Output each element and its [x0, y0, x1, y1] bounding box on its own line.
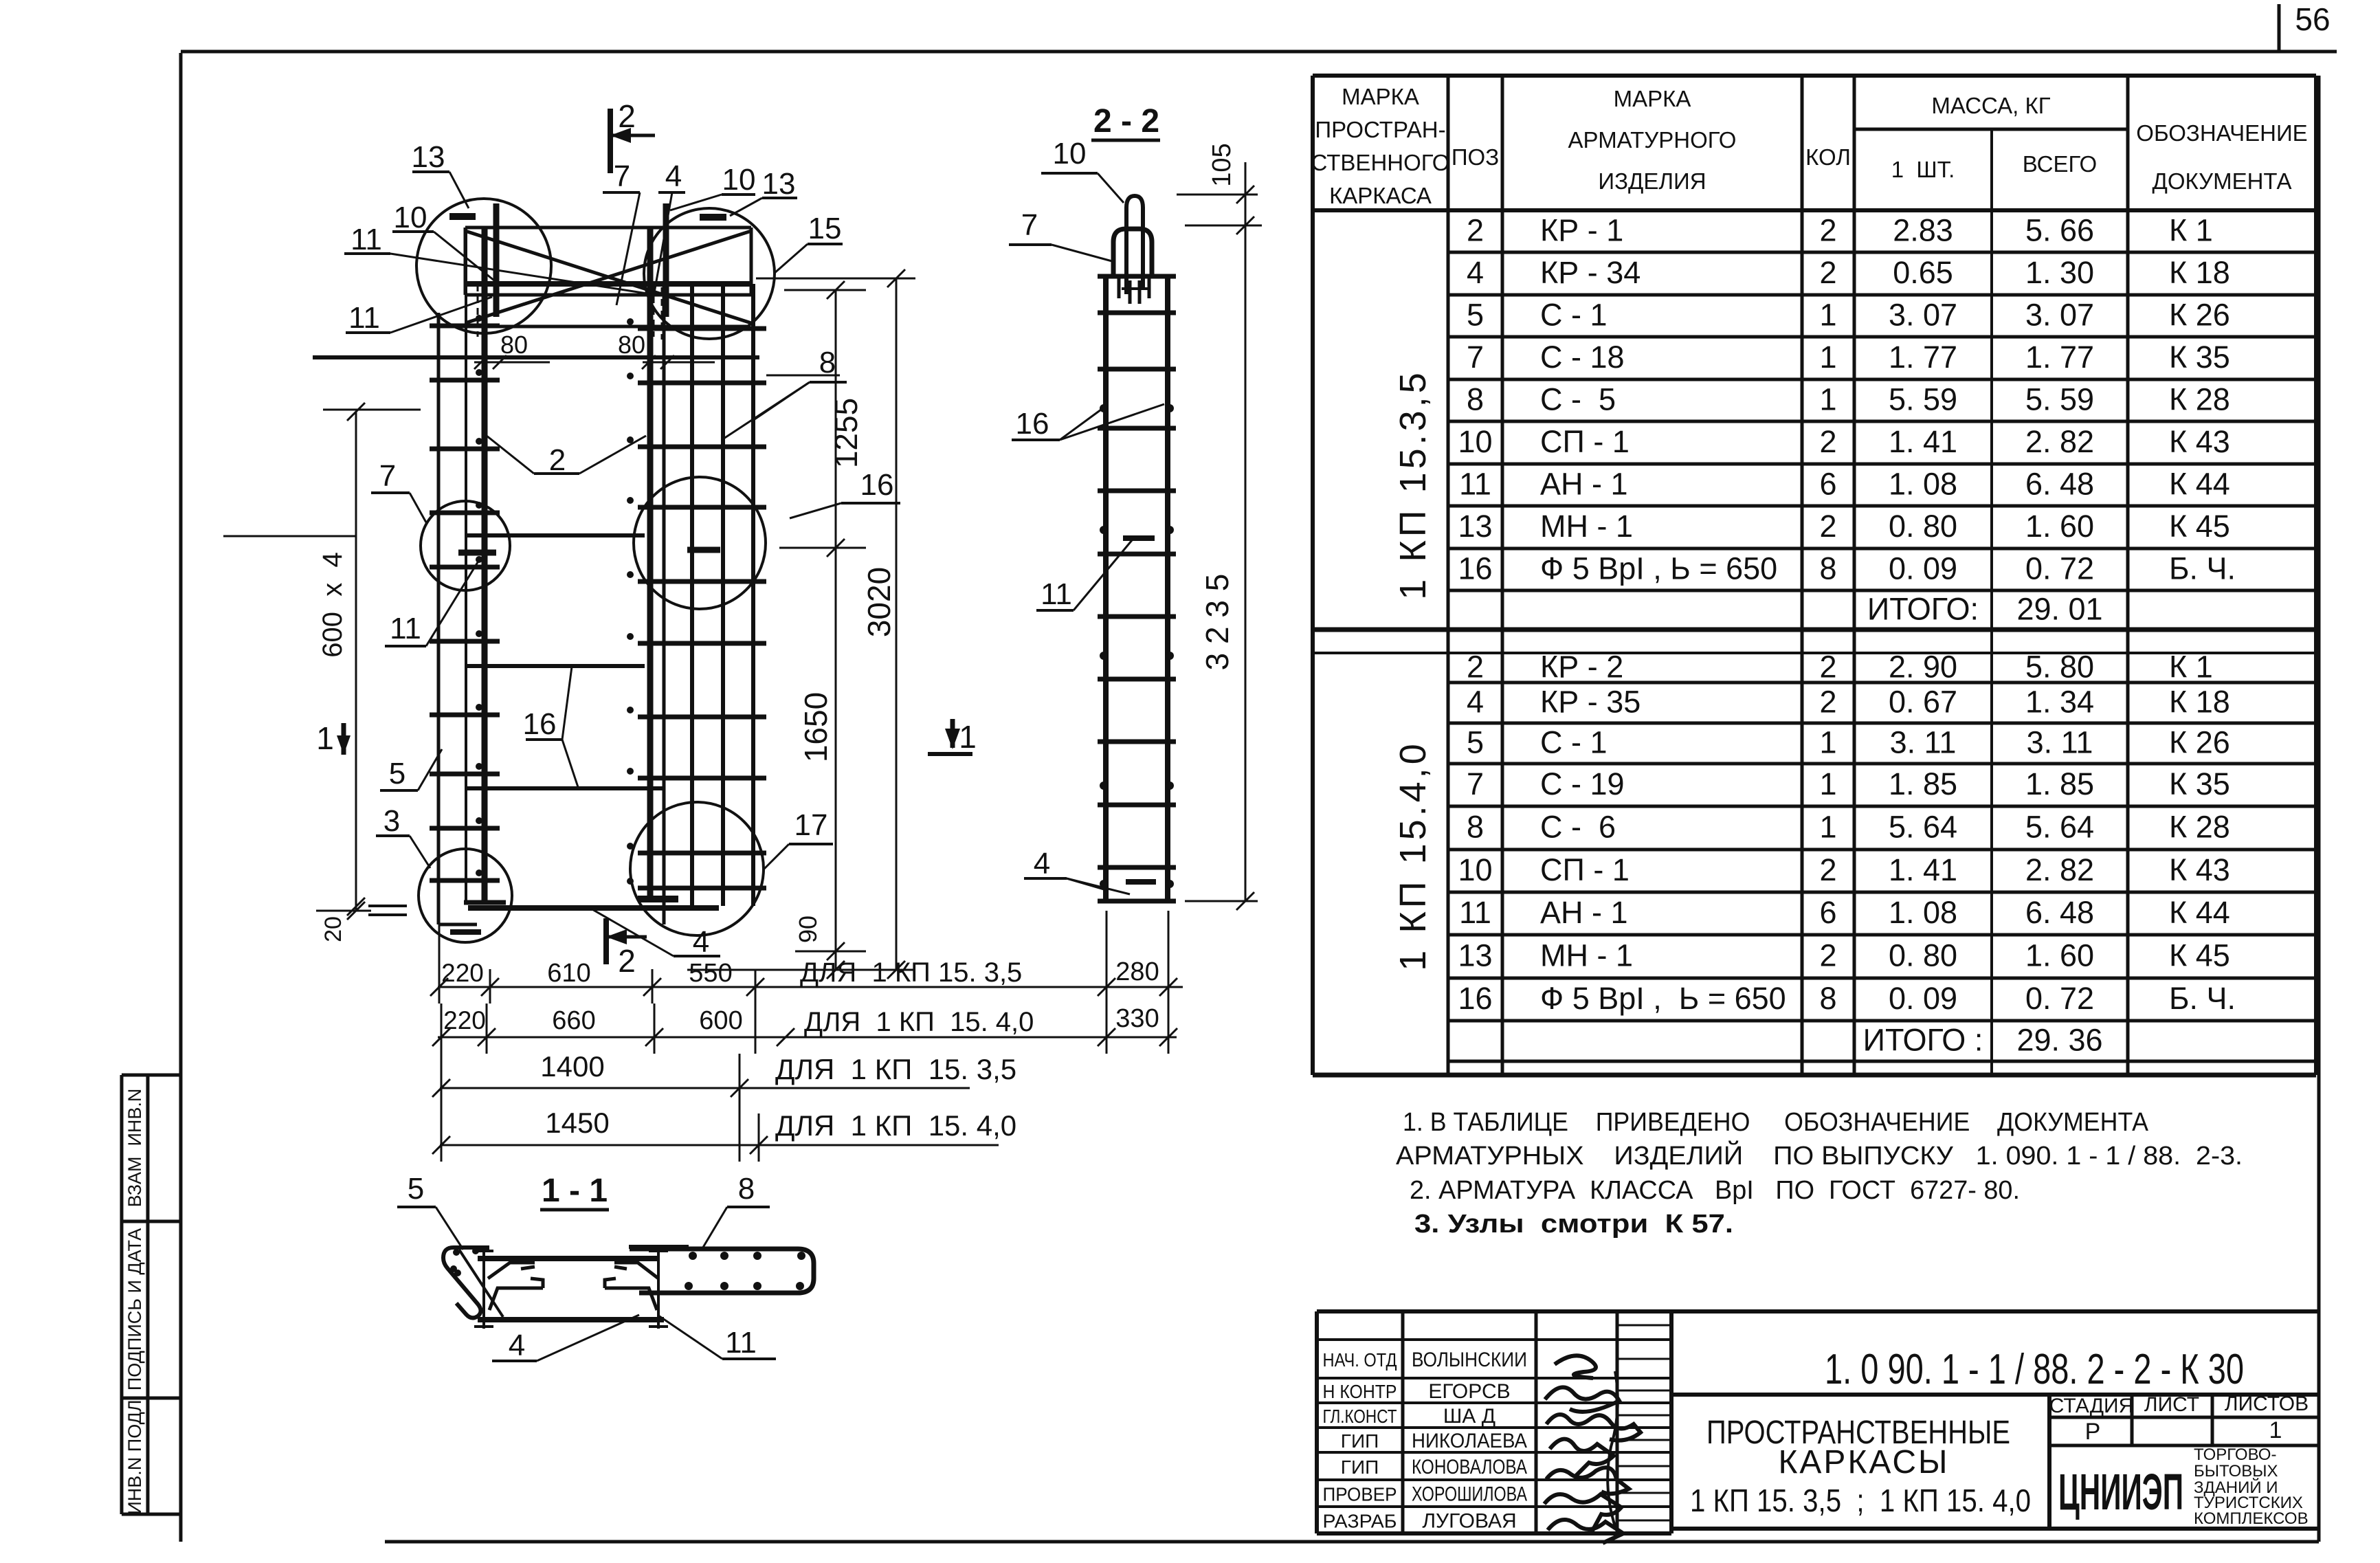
1-1 top bar [478, 1256, 660, 1261]
svg-text:К 44: К 44 [2169, 467, 2230, 502]
svg-text:2: 2 [1819, 852, 1836, 887]
svg-text:11: 11 [348, 301, 380, 335]
svg-text:К 35: К 35 [2169, 766, 2230, 801]
svg-text:1: 1 [1819, 725, 1836, 760]
svg-text:1. 85: 1. 85 [2025, 766, 2094, 801]
svg-text:1 КП 15. 3,5 ; 1 КП 15. 4,0: 1 КП 15. 3,5 ; 1 КП 15. 4,0 [1690, 1483, 2031, 1518]
dim 600x4 left [355, 412, 357, 911]
svg-text:1 КП 15.4,0: 1 КП 15.4,0 [1392, 740, 1434, 971]
svg-text:ЛУГОВАЯ: ЛУГОВАЯ [1422, 1510, 1516, 1533]
plan: connecting chord bars [467, 533, 645, 537]
svg-text:5. 80: 5. 80 [2025, 650, 2094, 685]
section marker 2 bottom [603, 918, 609, 964]
2-2 bottom dash [1126, 879, 1156, 885]
svg-text:ВОЛЫНСКИИ: ВОЛЫНСКИИ [1412, 1349, 1527, 1371]
svg-text:1: 1 [1819, 340, 1836, 375]
svg-text:МАРКА: МАРКА [1342, 84, 1419, 109]
svg-text:3020: 3020 [861, 567, 897, 637]
svg-text:2: 2 [1819, 685, 1836, 720]
section marker 2 top [608, 109, 613, 173]
svg-text:ГИП: ГИП [1341, 1456, 1379, 1478]
svg-text:15: 15 [808, 212, 842, 245]
svg-text:БЫТОВЫХ: БЫТОВЫХ [2194, 1462, 2278, 1481]
svg-text:7: 7 [379, 459, 396, 493]
plan: left поз.10 anchor bar [493, 203, 500, 317]
svg-text:К 43: К 43 [2169, 424, 2230, 459]
svg-text:8: 8 [1467, 810, 1484, 845]
svg-text:НИКОЛАЕВА: НИКОЛАЕВА [1412, 1430, 1527, 1452]
svg-text:1. 85: 1. 85 [1889, 766, 1957, 801]
plan: dashed joint marks left [477, 285, 479, 337]
svg-text:1650: 1650 [798, 692, 834, 762]
svg-text:1. 77: 1. 77 [1889, 340, 1957, 375]
svg-text:7: 7 [1021, 208, 1038, 242]
svg-text:С - 6: С - 6 [1540, 810, 1616, 845]
svg-text:МАРКА: МАРКА [1614, 86, 1691, 111]
svg-text:6. 48: 6. 48 [2025, 467, 2094, 502]
plan: mesh wires С-5 [690, 284, 694, 906]
svg-text:К 18: К 18 [2169, 685, 2230, 720]
svg-text:1400: 1400 [540, 1050, 604, 1083]
svg-text:ГЛ.КОНСТ: ГЛ.КОНСТ [1323, 1406, 1397, 1427]
svg-text:КР - 35: КР - 35 [1540, 685, 1641, 720]
svg-text:5: 5 [1467, 725, 1484, 760]
svg-text:4: 4 [1034, 847, 1050, 880]
svg-text:1. 30: 1. 30 [2025, 255, 2094, 290]
svg-text:0. 09: 0. 09 [1889, 551, 1957, 586]
svg-text:0.65: 0.65 [1893, 255, 1953, 290]
svg-text:КОЛ: КОЛ [1805, 144, 1851, 170]
svg-text:ХОРОШИЛОВА: ХОРОШИЛОВА [1412, 1483, 1527, 1506]
svg-text:1: 1 [1819, 766, 1836, 801]
svg-text:С - 19: С - 19 [1540, 766, 1625, 801]
svg-text:10: 10 [1053, 137, 1087, 170]
svg-text:2. 90: 2. 90 [1889, 650, 1957, 685]
plan: right rail bar [647, 228, 654, 901]
svg-text:КАРКАСЫ: КАРКАСЫ [1778, 1444, 1949, 1481]
svg-text:1450: 1450 [545, 1107, 609, 1139]
1-1 hooks поз.4 [488, 1263, 535, 1278]
svg-text:РАЗРАБ: РАЗРАБ [1323, 1511, 1397, 1532]
svg-text:3. Узлы смотри К 57.: 3. Узлы смотри К 57. [1414, 1210, 1733, 1239]
svg-text:80: 80 [618, 331, 645, 359]
svg-text:ИЗДЕЛИЯ: ИЗДЕЛИЯ [1598, 168, 1706, 194]
svg-text:СП - 1: СП - 1 [1540, 852, 1630, 887]
svg-text:ПОДПИСЬ И ДАТА: ПОДПИСЬ И ДАТА [124, 1228, 145, 1390]
svg-text:К 45: К 45 [2169, 509, 2230, 544]
svg-text:ША Д: ША Д [1443, 1405, 1495, 1428]
section marker 1 left [313, 355, 759, 359]
svg-text:1. 08: 1. 08 [1889, 895, 1957, 930]
svg-text:МН - 1: МН - 1 [1540, 938, 1633, 973]
svg-text:2: 2 [618, 943, 636, 979]
svg-text:600 х 4: 600 х 4 [318, 552, 348, 657]
page border frame [179, 53, 183, 1542]
plan: dashed joint marks right [653, 285, 655, 337]
svg-text:2. 82: 2. 82 [2025, 852, 2094, 887]
2-2 dim 3235 [1185, 900, 1258, 902]
svg-text:0. 72: 0. 72 [2025, 551, 2094, 586]
svg-text:К 44: К 44 [2169, 895, 2230, 930]
svg-text:ДЛЯ 1 КП 15. 4,0: ДЛЯ 1 КП 15. 4,0 [804, 1007, 1034, 1037]
svg-text:К 28: К 28 [2169, 810, 2230, 845]
svg-text:Б. Ч.: Б. Ч. [2169, 551, 2236, 586]
svg-text:0. 09: 0. 09 [1889, 981, 1957, 1016]
svg-text:550: 550 [689, 959, 732, 988]
plan: поз.13 dash bottom-left [450, 929, 481, 935]
1-1 поз.5 mesh piece [443, 1248, 489, 1318]
svg-text:8: 8 [1819, 551, 1836, 586]
svg-text:4: 4 [665, 159, 682, 193]
2-2 dim 105 [1245, 162, 1247, 901]
svg-text:220: 220 [443, 1006, 486, 1034]
svg-text:13: 13 [762, 167, 796, 201]
svg-text:2: 2 [1467, 213, 1484, 248]
svg-text:К 35: К 35 [2169, 340, 2230, 375]
svg-text:1: 1 [959, 719, 977, 755]
svg-text:220: 220 [441, 959, 484, 987]
2-2 rungs [1098, 311, 1176, 315]
svg-text:АН - 1: АН - 1 [1540, 467, 1628, 502]
chain2 220 660 600 для 1КП 15.4,0 330 [438, 1037, 1177, 1039]
svg-text:К 1: К 1 [2169, 650, 2213, 685]
svg-text:ОБОЗНАЧЕНИЕ: ОБОЗНАЧЕНИЕ [2136, 120, 2307, 146]
table outer and header lines [1313, 74, 2316, 78]
svg-text:АН - 1: АН - 1 [1540, 895, 1628, 930]
plan: mid dash marks [458, 550, 496, 556]
svg-text:2. 82: 2. 82 [2025, 424, 2094, 459]
svg-text:КАРКАСА: КАРКАСА [1329, 183, 1432, 208]
svg-text:11: 11 [1459, 895, 1491, 930]
2-2 ladder rails [1103, 276, 1109, 901]
svg-text:К 43: К 43 [2169, 852, 2230, 887]
2-2 top joint ticks [1117, 278, 1121, 298]
svg-text:5. 59: 5. 59 [2025, 382, 2094, 417]
svg-text:Р: Р [2085, 1419, 2101, 1445]
svg-text:8: 8 [1467, 382, 1484, 417]
svg-text:90: 90 [794, 916, 822, 943]
svg-text:АРМАТУРНЫХ ИЗДЕЛИЙ ПО ВЫ: АРМАТУРНЫХ ИЗДЕЛИЙ ПО ВЫПУСКУ 1. 090. 1 … [1396, 1140, 2243, 1171]
svg-text:29. 01: 29. 01 [2016, 592, 2102, 627]
chain4 1450 [440, 1144, 999, 1146]
svg-text:1: 1 [1819, 382, 1836, 417]
1-1 X cross left [459, 1250, 503, 1317]
svg-text:1. 08: 1. 08 [1889, 467, 1957, 502]
svg-text:1. 41: 1. 41 [1889, 852, 1957, 887]
svg-text:КОМПЛЕКСОВ: КОМПЛЕКСОВ [2194, 1509, 2309, 1528]
svg-text:2. АРМАТУРА КЛАССА ВрI ПО: 2. АРМАТУРА КЛАССА ВрI ПО ГОСТ 6727- 80. [1410, 1176, 2020, 1205]
svg-text:3. 11: 3. 11 [2027, 725, 2093, 760]
chain3 1400 [440, 1087, 970, 1089]
svg-text:7: 7 [614, 159, 630, 193]
plan: left thin wire [437, 313, 441, 924]
svg-text:330: 330 [1115, 1004, 1159, 1033]
svg-text:С - 1: С - 1 [1540, 725, 1608, 760]
svg-text:С - 18: С - 18 [1540, 340, 1625, 375]
svg-text:0. 67: 0. 67 [1889, 685, 1957, 720]
svg-text:К 18: К 18 [2169, 255, 2230, 290]
svg-text:ЕГОРСВ: ЕГОРСВ [1428, 1380, 1510, 1403]
svg-text:11: 11 [1041, 577, 1072, 611]
plan: поз.13 dash marks in circles [449, 213, 476, 220]
svg-text:5: 5 [408, 1172, 424, 1206]
svg-text:3: 3 [383, 804, 400, 838]
svg-text:6. 48: 6. 48 [2025, 895, 2094, 930]
svg-text:Б. Ч.: Б. Ч. [2169, 981, 2236, 1016]
svg-text:1255: 1255 [828, 398, 864, 468]
svg-text:2: 2 [1819, 424, 1836, 459]
svg-text:20: 20 [320, 916, 346, 942]
svg-text:16: 16 [1458, 981, 1492, 1016]
svg-text:10: 10 [722, 163, 756, 197]
svg-text:8: 8 [819, 346, 836, 379]
svg-text:КР - 34: КР - 34 [1540, 255, 1641, 290]
svg-text:К 26: К 26 [2169, 298, 2230, 333]
svg-text:К 1: К 1 [2169, 213, 2213, 248]
svg-text:ПРОВЕР: ПРОВЕР [1323, 1484, 1397, 1505]
svg-text:11: 11 [351, 223, 382, 256]
svg-text:5. 64: 5. 64 [1889, 810, 1957, 845]
svg-text:ТОРГОВО-: ТОРГОВО- [2194, 1445, 2276, 1464]
svg-text:2: 2 [1819, 650, 1836, 685]
svg-text:3. 07: 3. 07 [2025, 298, 2094, 333]
svg-text:1 КП 15.3,5: 1 КП 15.3,5 [1392, 369, 1434, 599]
dim 80 right [643, 362, 715, 364]
svg-text:105: 105 [1208, 143, 1236, 186]
svg-text:2 - 2: 2 - 2 [1093, 103, 1159, 140]
plan: right поз.10 anchor bar [663, 203, 669, 317]
dim 3020 outer line [896, 278, 898, 970]
svg-text:1. 77: 1. 77 [2025, 340, 2094, 375]
svg-text:5. 64: 5. 64 [2025, 810, 2094, 845]
svg-text:1: 1 [316, 720, 334, 756]
svg-text:29. 36: 29. 36 [2016, 1023, 2102, 1058]
svg-text:5. 59: 5. 59 [1889, 382, 1957, 417]
svg-text:8: 8 [1819, 981, 1836, 1016]
svg-text:ВЗАМ ИНВ.N: ВЗАМ ИНВ.N [124, 1089, 145, 1208]
svg-text:0. 72: 0. 72 [2025, 981, 2094, 1016]
svg-text:660: 660 [552, 1006, 595, 1035]
1-1 bottom bar [478, 1317, 664, 1322]
svg-text:ДОКУМЕНТА: ДОКУМЕНТА [2153, 168, 2292, 194]
svg-text:11: 11 [725, 1326, 757, 1360]
title project box [2047, 1395, 2051, 1529]
svg-text:КОНОВАЛОВА: КОНОВАЛОВА [1412, 1456, 1527, 1478]
svg-text:6: 6 [1819, 895, 1836, 930]
plan: bottom hooks [464, 900, 506, 905]
svg-text:10: 10 [1458, 852, 1492, 887]
svg-text:1 - 1: 1 - 1 [542, 1173, 608, 1209]
svg-text:13: 13 [1458, 509, 1492, 544]
svg-text:4: 4 [509, 1329, 525, 1362]
svg-text:С - 1: С - 1 [1540, 298, 1608, 333]
svg-text:К 28: К 28 [2169, 382, 2230, 417]
plan: bottom closing bar [468, 905, 719, 911]
svg-text:ПРОСТРАН-: ПРОСТРАН- [1315, 117, 1445, 142]
plan: top member КР-1 [465, 226, 751, 230]
svg-text:ДЛЯ 1 КП 15. 4,0: ДЛЯ 1 КП 15. 4,0 [775, 1109, 1016, 1142]
svg-text:2: 2 [549, 443, 566, 477]
table group1 row lines [1448, 251, 2316, 254]
svg-text:6: 6 [1819, 467, 1836, 502]
svg-text:10: 10 [394, 201, 427, 234]
1-1 right cross vertical [657, 1249, 660, 1329]
svg-text:8: 8 [738, 1172, 755, 1206]
svg-text:СТВЕННОГО: СТВЕННОГО [1311, 150, 1450, 175]
svg-text:16: 16 [523, 707, 557, 741]
plan: detail circles [416, 199, 551, 333]
title block staff grid [1317, 1338, 1671, 1341]
svg-text:ИНВ.N ПОДЛ: ИНВ.N ПОДЛ [124, 1399, 145, 1514]
svg-text:10: 10 [1458, 424, 1492, 459]
svg-text:1. 60: 1. 60 [2025, 938, 2094, 973]
svg-text:1: 1 [2269, 1417, 2282, 1443]
svg-text:4: 4 [693, 925, 709, 959]
svg-text:1. В ТАБЛИЦЕ ПРИВЕДЕНО: 1. В ТАБЛИЦЕ ПРИВЕДЕНО ОБОЗНАЧЕНИЕ ДОКУМ… [1403, 1108, 2149, 1137]
svg-text:ЦНИИЭП: ЦНИИЭП [2058, 1463, 2183, 1520]
svg-text:2: 2 [618, 98, 636, 134]
svg-text:1. 34: 1. 34 [2025, 685, 2094, 720]
2-2 top bracket поз.7 [1113, 229, 1152, 276]
svg-text:56: 56 [2295, 1, 2330, 37]
svg-text:ДЛЯ 1 КП 15. 3,5: ДЛЯ 1 КП 15. 3,5 [800, 957, 1022, 988]
svg-text:2: 2 [1467, 650, 1484, 685]
svg-text:ЛИСТ: ЛИСТ [2144, 1393, 2199, 1416]
svg-text:7: 7 [1467, 766, 1484, 801]
svg-text:1. 60: 1. 60 [2025, 509, 2094, 544]
svg-text:3. 11: 3. 11 [1890, 725, 1957, 760]
plan: left rail crossbars [430, 324, 500, 329]
svg-text:16: 16 [860, 468, 894, 502]
svg-text:4: 4 [1467, 685, 1484, 720]
svg-text:1. 0 90. 1 - 1 / 88. 2 - 2 - К: 1. 0 90. 1 - 1 / 88. 2 - 2 - К 30 [1825, 1346, 2244, 1393]
svg-text:1. 41: 1. 41 [1889, 424, 1957, 459]
chain1 220 610 550 для 1КП 15.3,5 280 [438, 986, 1183, 988]
svg-text:280: 280 [1115, 957, 1159, 986]
svg-text:4: 4 [1467, 255, 1484, 290]
svg-text:5. 66: 5. 66 [2025, 213, 2094, 248]
svg-text:Ф 5 ВрI , Ь = 650: Ф 5 ВрI , Ь = 650 [1540, 551, 1777, 586]
svg-text:13: 13 [412, 140, 445, 174]
plan: mesh bottom hook right [638, 896, 678, 902]
svg-text:К 26: К 26 [2169, 725, 2230, 760]
svg-text:СТАДИЯ: СТАДИЯ [2049, 1395, 2134, 1417]
svg-text:КР - 2: КР - 2 [1540, 650, 1623, 685]
svg-text:Н КОНТР: Н КОНТР [1323, 1381, 1397, 1402]
svg-text:17: 17 [794, 808, 828, 842]
svg-text:2: 2 [1819, 509, 1836, 544]
1-1 left cross verticals [482, 1249, 485, 1329]
svg-text:ИТОГО:: ИТОГО: [1867, 592, 1979, 627]
svg-text:11: 11 [390, 612, 421, 645]
svg-text:Ф 5 ВрI , Ь = 650: Ф 5 ВрI , Ь = 650 [1540, 981, 1786, 1016]
2-2 bottom extension lines [1106, 911, 1108, 1054]
svg-text:ЛИСТОВ: ЛИСТОВ [2225, 1393, 2309, 1415]
svg-text:К 45: К 45 [2169, 938, 2230, 973]
plan: right mesh crossbars [638, 326, 766, 331]
svg-text:КР - 1: КР - 1 [1540, 213, 1623, 248]
svg-text:16: 16 [1016, 407, 1049, 441]
dim 20 left [368, 905, 407, 907]
svg-text:1 ШТ.: 1 ШТ. [1891, 157, 1955, 182]
page number 56 [2278, 4, 2281, 52]
table column lines [1311, 76, 1315, 1075]
svg-text:СП - 1: СП - 1 [1540, 424, 1630, 459]
svg-text:3 2 3 5: 3 2 3 5 [1199, 574, 1235, 671]
svg-text:3. 07: 3. 07 [1889, 298, 1957, 333]
2-2 loop поз.10 [1126, 196, 1143, 294]
svg-text:ПОЗ: ПОЗ [1452, 144, 1499, 170]
svg-text:2: 2 [1819, 213, 1836, 248]
svg-text:80: 80 [500, 331, 528, 359]
svg-text:600: 600 [699, 1006, 742, 1035]
svg-text:5: 5 [1467, 298, 1484, 333]
svg-text:АРМАТУРНОГО: АРМАТУРНОГО [1568, 127, 1737, 153]
svg-text:2.83: 2.83 [1893, 213, 1953, 248]
stadia list listov table [2049, 1416, 2319, 1419]
svg-text:С - 5: С - 5 [1540, 382, 1616, 417]
svg-text:11: 11 [1459, 467, 1491, 502]
svg-text:0. 80: 0. 80 [1889, 938, 1957, 973]
doc number cell [1671, 1393, 2319, 1397]
plan: left rail bars поз.2 [465, 228, 467, 901]
svg-text:МН - 1: МН - 1 [1540, 509, 1633, 544]
2-2 поз.11 dash [1123, 535, 1155, 541]
dim 1255 and 1650 inner line [835, 290, 837, 970]
svg-text:7: 7 [1467, 340, 1484, 375]
svg-text:1: 1 [1819, 298, 1836, 333]
table group2 row lines [1448, 681, 2316, 685]
svg-text:1: 1 [1819, 810, 1836, 845]
svg-text:5: 5 [389, 757, 405, 790]
title block outer [1317, 1309, 2319, 1313]
svg-text:ИТОГО :: ИТОГО : [1863, 1023, 1983, 1058]
svg-text:ГИП: ГИП [1341, 1430, 1379, 1452]
1-1 поз.8 mesh piece right [630, 1249, 814, 1293]
sidebar box [120, 1075, 124, 1514]
svg-text:13: 13 [1458, 938, 1492, 973]
svg-text:16: 16 [1458, 551, 1492, 586]
svg-text:610: 610 [547, 959, 590, 988]
section marker 1 right (near 2-2) [928, 752, 972, 756]
signatures squiggles [1555, 1355, 1596, 1378]
svg-text:ВСЕГО: ВСЕГО [2023, 151, 2097, 177]
svg-text:НАЧ. ОТД: НАЧ. ОТД [1323, 1349, 1397, 1371]
svg-text:ДЛЯ 1 КП 15. 3,5: ДЛЯ 1 КП 15. 3,5 [775, 1053, 1016, 1085]
plan: X bracing diagonals [465, 231, 751, 323]
svg-text:2: 2 [1819, 938, 1836, 973]
svg-text:2: 2 [1819, 255, 1836, 290]
svg-text:0. 80: 0. 80 [1889, 509, 1957, 544]
svg-text:МАССА, КГ: МАССА, КГ [1931, 93, 2050, 118]
dim 80 left [474, 362, 550, 364]
